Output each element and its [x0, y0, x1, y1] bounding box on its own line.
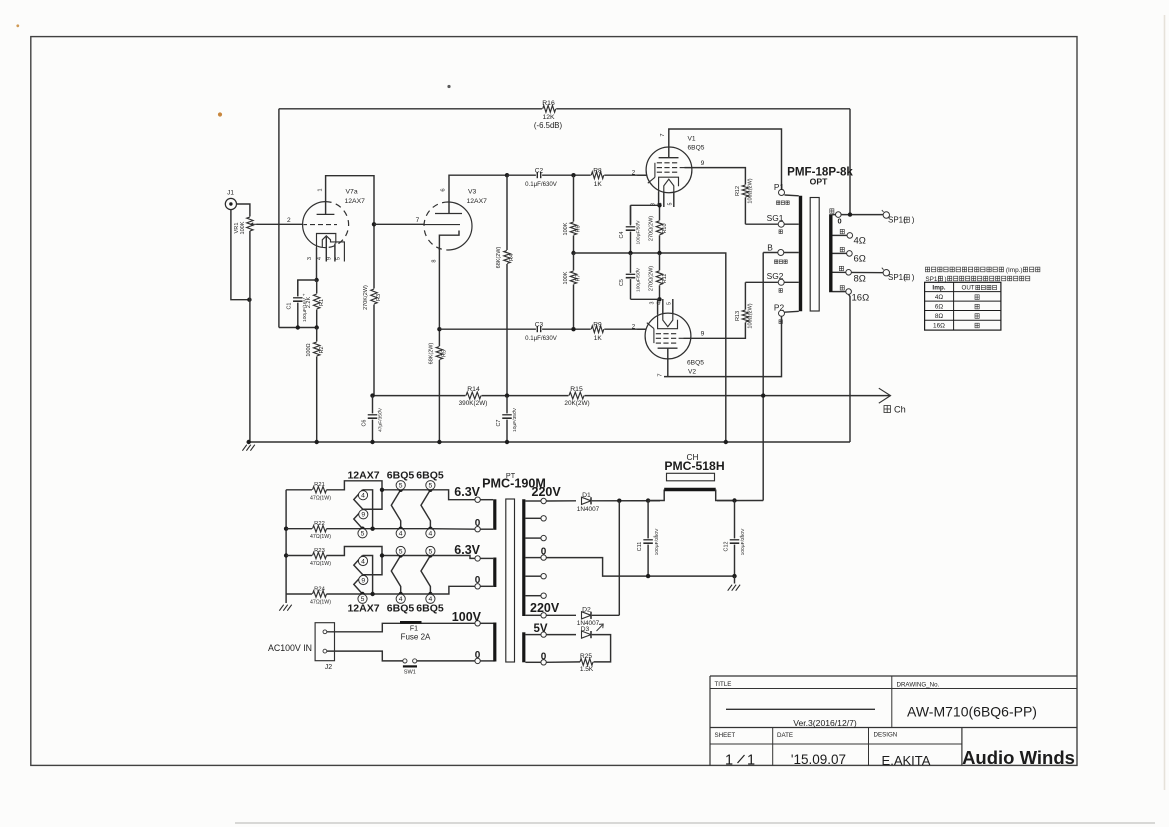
svg-text:4: 4 [657, 302, 663, 305]
svg-text:6BQ5: 6BQ5 [387, 470, 415, 482]
svg-text:R7: R7 [576, 274, 582, 281]
6BQ5 heater chevron 1 [391, 490, 400, 529]
svg-text:3: 3 [651, 203, 657, 206]
svg-text:100V: 100V [452, 610, 482, 624]
V7a heater tent [322, 236, 344, 262]
svg-text:20K(2W): 20K(2W) [564, 400, 589, 407]
svg-text:5: 5 [429, 483, 433, 490]
svg-text:E.AKITA: E.AKITA [882, 753, 931, 768]
svg-text:Audio Winds: Audio Winds [962, 747, 1075, 768]
svg-text:C6: C6 [361, 420, 367, 427]
ground symbol main bus [242, 445, 246, 451]
svg-text:12AX7: 12AX7 [467, 198, 488, 205]
wire V2 cathode node [631, 298, 660, 300]
svg-text:R3: R3 [376, 294, 382, 301]
tube V7a 12AX7 (triode) [303, 202, 326, 248]
12AX7 heater chevrons [354, 490, 363, 509]
V1 grid rail [654, 163, 656, 178]
svg-text:(-6.5dB): (-6.5dB) [534, 121, 563, 130]
PT right winding bar 220V [522, 499, 525, 616]
svg-text:4: 4 [658, 203, 664, 206]
ground symbol filter [734, 576, 736, 583]
svg-text:4: 4 [429, 531, 433, 538]
wire R13 to SG2 [745, 281, 777, 283]
svg-text:8Ω: 8Ω [854, 273, 866, 284]
svg-text:R5: R5 [442, 350, 448, 357]
svg-text:1N4007: 1N4007 [577, 506, 600, 513]
svg-text:V2: V2 [688, 369, 696, 376]
svg-text:9: 9 [701, 331, 705, 338]
svg-text:C4: C4 [619, 232, 625, 239]
resistor R14 390K(2W) [466, 391, 482, 399]
node ground bus junctions [247, 440, 251, 444]
svg-text:100K: 100K [240, 221, 246, 234]
svg-text:1.5K: 1.5K [580, 666, 594, 673]
OPT core [810, 198, 819, 312]
OPT secondary winding bar [829, 214, 832, 292]
resistor R25 1.5K [580, 658, 594, 666]
wire J2 hot to fuse [327, 623, 475, 632]
svg-text:DATE: DATE [777, 732, 793, 739]
resistor R5 68K(2W) [435, 346, 443, 360]
svg-text:OUT: OUT [962, 285, 975, 292]
resistor R16 [542, 105, 556, 113]
title block frame [709, 676, 711, 766]
svg-text:F1: F1 [410, 626, 418, 633]
arrow to other channel [884, 395, 891, 397]
note speaker impedance line1 [925, 267, 929, 272]
svg-text:C5: C5 [619, 279, 625, 286]
svg-text:V3: V3 [468, 189, 477, 196]
node mid bias junctions [628, 251, 632, 255]
svg-text:220V: 220V [532, 485, 562, 499]
wire R12 to SG1 [745, 223, 777, 225]
svg-text:SG2: SG2 [767, 271, 784, 281]
svg-text:P1: P1 [774, 182, 785, 192]
svg-text:100K: 100K [563, 271, 569, 284]
svg-text:4: 4 [361, 558, 365, 565]
wire to V3 grid pin 7 [374, 223, 424, 225]
V1 pin stubs 3 4 5 [658, 192, 660, 206]
wire heater row 2A right [382, 555, 430, 557]
svg-text:'15.09.07: '15.09.07 [791, 752, 846, 767]
pin circled digits group2 [358, 556, 367, 565]
svg-text:100Ω: 100Ω [306, 343, 312, 356]
paper edge bottom [235, 822, 1155, 824]
wire VR1 wiper to V7a grid pin 2 [257, 223, 303, 225]
wire feedback left vertical [278, 109, 280, 328]
terminal SG1 [778, 223, 799, 225]
svg-text:4Ω: 4Ω [854, 235, 866, 246]
wire heater row 1A [286, 489, 312, 491]
node V2 cathode junction [657, 297, 661, 301]
V7a cathode roof [317, 234, 336, 248]
resistor R11 270ohm(2W) [659, 253, 661, 299]
svg-text:12AX7: 12AX7 [345, 198, 366, 205]
svg-text:390K(2W): 390K(2W) [459, 400, 488, 407]
terminal 5V [525, 634, 540, 636]
wire B rail down to PS [762, 253, 764, 501]
scan speck orange [218, 112, 222, 116]
node R7 bottom [571, 327, 575, 331]
svg-text:C11: C11 [637, 542, 643, 552]
wire bias mid node to ground [574, 253, 726, 442]
OPT primary winding bar [799, 196, 802, 311]
wire V2 plate pin 7 to P2 [667, 348, 669, 376]
wire V2 screen pin 9 to R13 [684, 328, 746, 338]
wire row4 to 0 terminal [430, 586, 475, 594]
svg-text:5V: 5V [534, 623, 548, 635]
PT secondary taps [525, 517, 540, 519]
svg-text:SW1: SW1 [404, 669, 416, 675]
svg-text:6BQ5: 6BQ5 [387, 603, 415, 615]
wire to C1 branch [298, 280, 317, 297]
wire J1 to VR1 [237, 204, 250, 217]
wire feedback right vertical [849, 109, 851, 215]
svg-text:270K(2W): 270K(2W) [363, 285, 369, 310]
node rail junctions [370, 393, 374, 397]
svg-text:PMC-518H: PMC-518H [664, 459, 724, 473]
svg-text:0: 0 [475, 575, 481, 586]
svg-text:R15: R15 [570, 386, 583, 393]
6BQ5 heater chevron 2 [421, 490, 430, 529]
svg-text:68K(2W): 68K(2W) [429, 342, 435, 364]
wire 0 tap to filter ground [546, 558, 734, 577]
svg-text:6Ω: 6Ω [854, 253, 866, 264]
tube V1 6BQ5 (pentode) [646, 147, 692, 193]
OPT secondary tap 16ohm [833, 291, 847, 293]
wire J2 neutral to SW1 [327, 651, 475, 661]
svg-text:): ) [912, 215, 915, 224]
svg-text:8: 8 [432, 259, 438, 262]
wire 220V top to D1 [546, 500, 576, 502]
svg-text:J1: J1 [227, 190, 234, 197]
V2 pin stubs 3 4 5 [657, 299, 659, 314]
svg-text:DESIGN: DESIGN [874, 732, 898, 739]
wire VR1 down to ground bus [249, 231, 251, 442]
wire heater left bus [285, 490, 287, 603]
OPT secondary tap 0 (black) [833, 214, 887, 216]
svg-text:100K: 100K [563, 222, 569, 235]
V3 grid dashes [427, 223, 430, 225]
svg-text:AW-M710(6BQ6-PP): AW-M710(6BQ6-PP) [907, 704, 1037, 720]
fuse F1 2A [400, 621, 422, 624]
svg-text:5: 5 [336, 257, 342, 260]
svg-text:4: 4 [399, 596, 403, 603]
wire row3 to 6.3V terminal [430, 556, 475, 559]
capacitor C11 100uF/350V [646, 498, 650, 502]
wire 220V bottom to D2 [546, 614, 576, 616]
svg-text:TITLE: TITLE [715, 681, 732, 688]
svg-text:C3: C3 [535, 322, 544, 329]
svg-text:6.3V: 6.3V [454, 543, 480, 557]
resistor R7 100K [573, 253, 575, 329]
svg-text:SP1(: SP1( [888, 273, 906, 282]
wire row2 to 0 terminal [430, 528, 475, 531]
V3 cathode hook [439, 231, 459, 251]
terminal 0 5V winding [525, 661, 540, 663]
svg-text:270Ω(2W): 270Ω(2W) [649, 216, 655, 241]
wire 5V to D3 [546, 634, 576, 636]
6BQ5 heater chevron 2 [421, 556, 430, 595]
svg-text:OPT: OPT [810, 177, 828, 187]
paper edge right [1164, 15, 1166, 790]
svg-text:100Ω(2W): 100Ω(2W) [748, 303, 754, 328]
svg-text:100μF/50V: 100μF/50V [635, 267, 641, 292]
svg-text:D2: D2 [582, 607, 591, 614]
terminal 100V [475, 621, 480, 626]
svg-text:100Ω(2W): 100Ω(2W) [748, 178, 754, 203]
resistor R6 100K [573, 175, 575, 253]
node feedback tap junction [848, 212, 852, 216]
svg-text:D3: D3 [581, 626, 590, 633]
node R1 C1 bottom junctions [296, 325, 300, 329]
svg-text:P2: P2 [774, 303, 785, 313]
svg-text:10μF/350V: 10μF/350V [512, 407, 518, 432]
V1 grid dashes [657, 162, 662, 164]
svg-text:5: 5 [429, 548, 433, 555]
wire J1 ground L [231, 210, 250, 300]
svg-text:0: 0 [541, 652, 547, 663]
V2 cathode tent [663, 314, 673, 326]
svg-text:100μF/350V: 100μF/350V [654, 528, 660, 555]
svg-text:R22: R22 [314, 521, 325, 527]
svg-text:J2: J2 [325, 664, 333, 671]
svg-text:16Ω: 16Ω [852, 293, 870, 304]
svg-text:68K(2W): 68K(2W) [496, 246, 502, 268]
scan speck orange 2 [16, 24, 19, 27]
svg-text:SG1: SG1 [767, 213, 784, 223]
svg-text:0: 0 [541, 547, 547, 558]
svg-text:9: 9 [361, 577, 365, 584]
wire D2 riser [618, 501, 620, 616]
wire row1 to 6.3V terminal [430, 490, 475, 500]
wire feedback top rail [279, 108, 850, 110]
node V3 cathode to C3 [437, 327, 441, 331]
svg-text:3: 3 [650, 302, 656, 305]
svg-text:9: 9 [327, 257, 333, 260]
terminal P1 [779, 190, 785, 196]
svg-text:0.1μF/630V: 0.1μF/630V [525, 335, 558, 342]
terminal SG2 [778, 281, 799, 283]
svg-text:6.3V: 6.3V [454, 485, 480, 499]
capacitor C6 47uF/350V [372, 396, 374, 442]
svg-text:R1: R1 [319, 299, 325, 306]
svg-text:5: 5 [361, 531, 365, 538]
svg-text:R11: R11 [662, 274, 668, 284]
V2 cathode roof [658, 314, 678, 328]
resistor R1 2.2K [316, 280, 318, 328]
V1 cathode roof [659, 177, 679, 191]
svg-text:Ver.3(2016/12/7): Ver.3(2016/12/7) [793, 718, 857, 728]
scan speck dark [447, 85, 450, 88]
table impedance [925, 282, 1001, 330]
wire V1 plate pin 7 to P1 [669, 129, 782, 189]
svg-text:R12: R12 [735, 186, 741, 196]
node heater junctions [360, 592, 364, 596]
wire C2 line [507, 174, 647, 176]
switch SW1 [403, 659, 417, 664]
wire V2 grid pin 2 [637, 328, 646, 330]
terminal 0 primary [475, 658, 480, 663]
svg-text:12AX7: 12AX7 [347, 470, 379, 482]
svg-text:R10: R10 [662, 223, 668, 233]
wire D3 loop [592, 635, 611, 662]
resistor R8 1K [591, 171, 605, 179]
svg-text:D1: D1 [582, 492, 591, 499]
PT left winding bar 6.3V-2 [493, 558, 496, 588]
svg-text:12AX7: 12AX7 [347, 603, 379, 615]
node V7a plate / V3 grid [372, 222, 376, 226]
resistor R4 68K(2W) [506, 175, 508, 395]
resistor R12 100ohm(2W) [744, 180, 746, 224]
wire 16ohm tap to ground bus [849, 294, 850, 442]
svg-text:5: 5 [399, 548, 403, 555]
svg-text:8Ω: 8Ω [935, 313, 944, 320]
terminal 220V top [525, 500, 540, 502]
terminal B [763, 252, 799, 254]
capacitor C4 100uF/50V [630, 205, 632, 253]
resistor R3 270K(2W) plate load [373, 224, 375, 395]
V2 plate bar [658, 347, 678, 349]
node heater bus junctions [284, 527, 288, 531]
wire C3 line [439, 328, 646, 330]
connector J1 [225, 198, 236, 209]
svg-text:9: 9 [361, 512, 365, 519]
svg-text:4: 4 [399, 531, 403, 538]
capacitor C12 100uF/350V [732, 498, 736, 502]
resistor R13 100ohm(2W) [744, 282, 746, 328]
svg-text:DRAWING_No.: DRAWING_No. [897, 681, 940, 688]
node filter ground junctions [646, 574, 650, 578]
ground symbol heater bus [279, 605, 283, 611]
wire heater row 1B [286, 528, 312, 530]
node V1 cathode junction [657, 203, 661, 207]
capacitor C5 100uF/50V [630, 253, 632, 299]
svg-text:Ch: Ch [894, 405, 906, 415]
svg-text:6BQ5: 6BQ5 [688, 145, 705, 152]
resistor R9 1K [591, 325, 605, 333]
V2 grid rail [653, 329, 655, 344]
connector SP1(black) [883, 270, 889, 276]
svg-text:B: B [767, 243, 773, 253]
capacitor C3 0.1uF/630V [536, 326, 542, 333]
capacitor C7 10uF/350V [506, 396, 508, 442]
PT left winding bar 100V [493, 623, 496, 662]
tube V2 6BQ5 (pentode) [645, 313, 691, 359]
wire V7a cathode pin 3 down [316, 248, 318, 281]
svg-text:1K: 1K [594, 335, 603, 342]
PT left winding bar 6.3V-1 [493, 499, 496, 530]
potentiometer VR1 100K [246, 217, 254, 232]
svg-text:16Ω: 16Ω [933, 323, 945, 330]
svg-text:5: 5 [667, 203, 673, 206]
capacitor C1 100uF/16V [297, 280, 299, 328]
OPT secondary tap 6ohm [833, 252, 847, 254]
svg-text:0: 0 [837, 217, 841, 226]
diode D2 1N4007 [581, 611, 593, 621]
svg-text:6Ω: 6Ω [935, 304, 944, 311]
node cathode junction [314, 278, 318, 282]
svg-text:220V: 220V [530, 601, 560, 615]
PT core [506, 499, 515, 662]
svg-text:R14: R14 [467, 386, 480, 393]
resistor R10 270ohm(2W) [659, 205, 661, 253]
svg-text:47Ω(1W): 47Ω(1W) [310, 561, 331, 567]
svg-text:1: 1 [725, 753, 733, 769]
wire V3 cathode down [438, 248, 440, 442]
svg-text:Fuse 2A: Fuse 2A [401, 633, 431, 642]
V1 cathode tent [664, 179, 674, 191]
svg-text:5: 5 [361, 596, 365, 603]
diode D1 1N4007 [581, 496, 593, 506]
svg-text:R4: R4 [509, 254, 515, 261]
svg-text:C1: C1 [286, 303, 292, 310]
wire V3 plate pin 6 up [449, 175, 507, 213]
svg-text:47μF/350V: 47μF/350V [377, 407, 383, 432]
border frame [31, 37, 1077, 766]
svg-text:R16: R16 [542, 100, 555, 107]
svg-text:R8: R8 [593, 167, 602, 174]
svg-text:2: 2 [287, 217, 291, 224]
svg-text:R21: R21 [314, 482, 325, 488]
connector SP1(red) [883, 212, 889, 218]
wire R25 to 0 [546, 661, 580, 663]
terminal 220V bottom [525, 614, 540, 616]
V7a pin stubs 4 9 [325, 237, 327, 262]
svg-text:47Ω(1W): 47Ω(1W) [310, 600, 331, 606]
title underline [726, 708, 875, 710]
svg-text:1: 1 [747, 753, 755, 769]
svg-text:C12: C12 [723, 542, 729, 552]
terminal P2 [779, 310, 785, 316]
svg-text:1K: 1K [594, 181, 603, 188]
wire V1 grid pin 2 [637, 174, 647, 176]
connector J2 [315, 623, 334, 661]
svg-text:4Ω: 4Ω [935, 294, 944, 301]
svg-text:C2: C2 [535, 168, 544, 175]
svg-text:100μF/350V: 100μF/350V [740, 528, 746, 555]
resistor R15 20K(2W) [569, 391, 585, 399]
svg-text:7: 7 [660, 133, 666, 136]
pin circled digits group1 [358, 491, 367, 500]
svg-text:47Ω(1W): 47Ω(1W) [310, 534, 331, 540]
svg-text:6BQ5: 6BQ5 [687, 360, 704, 367]
wire ground bus [249, 441, 850, 443]
V2 grid dashes [656, 342, 661, 344]
svg-text:6BQ5: 6BQ5 [416, 470, 444, 482]
wire heater row 1A right [382, 489, 430, 491]
svg-text:SP1(: SP1( [888, 215, 906, 224]
svg-text:5: 5 [666, 302, 672, 305]
wire V7a plate pin 1 up and over [326, 176, 374, 225]
svg-text:C7: C7 [496, 420, 502, 427]
node D2 join [617, 499, 621, 503]
svg-text:R2: R2 [319, 346, 325, 353]
svg-text:V7a: V7a [346, 189, 358, 196]
node R6 top [571, 173, 575, 177]
svg-text:270Ω(2W): 270Ω(2W) [649, 266, 655, 291]
svg-text:9: 9 [701, 160, 705, 167]
resistor R2 100ohm [316, 328, 318, 443]
svg-text:): ) [912, 273, 915, 282]
svg-text:1: 1 [318, 188, 324, 191]
V3 plate bar [435, 213, 462, 215]
svg-text:0.1μF/630V: 0.1μF/630V [525, 181, 558, 188]
svg-text:6BQ5: 6BQ5 [416, 603, 444, 615]
node C2 R4 junction [505, 173, 509, 177]
svg-text:(Imp.): (Imp.) [1006, 267, 1023, 274]
